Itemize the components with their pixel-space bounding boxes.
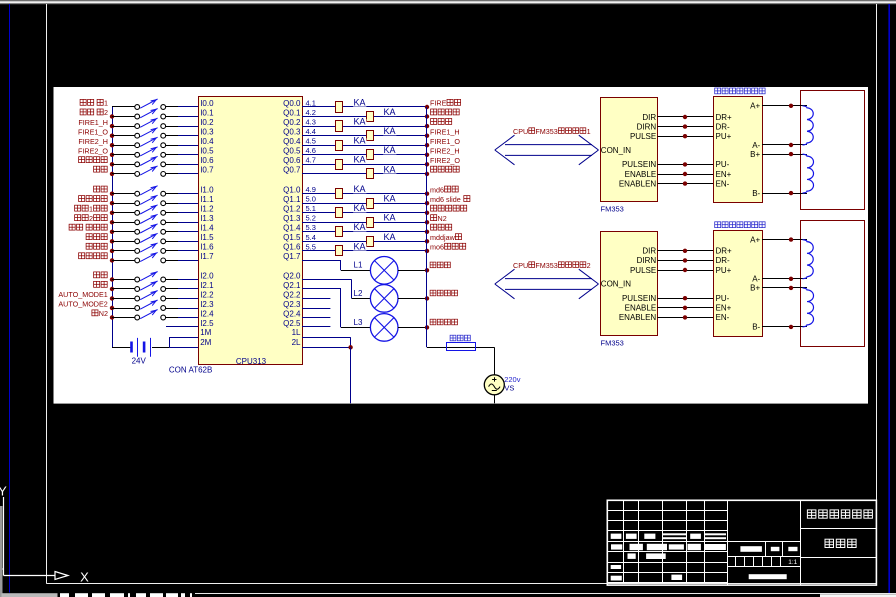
svg-text:Q1.4: Q1.4 [283, 224, 301, 233]
svg-text:DIRN: DIRN [637, 122, 657, 131]
svg-text:PULSE: PULSE [630, 266, 656, 275]
pin 1M [200, 328, 211, 337]
junction on right bus [425, 239, 429, 243]
pin PU+ [716, 132, 732, 141]
pin Q1.7 [283, 252, 301, 261]
label 自动显示 [430, 290, 457, 296]
pin PU- [716, 160, 730, 169]
svg-text:I0.5: I0.5 [200, 147, 214, 156]
junction on left bus [110, 287, 114, 291]
svg-text:md6 slide: md6 slide [430, 195, 461, 204]
svg-text:4.3: 4.3 [306, 118, 316, 127]
svg-text:1M: 1M [200, 328, 211, 337]
junction on right bus [425, 153, 429, 157]
junction [789, 104, 793, 108]
input switch I0.1 [112, 109, 199, 119]
pin A- [752, 141, 760, 150]
pin I0.0 [200, 99, 214, 108]
svg-text:2: 2 [587, 261, 591, 270]
wire ENABLE to driver [658, 174, 714, 176]
svg-text:FM353: FM353 [601, 338, 624, 347]
pin Q2.5 [283, 319, 301, 328]
label 主轴旋转 [431, 166, 460, 172]
pin I0.5 [200, 147, 214, 156]
wire stub Q2.2 [302, 317, 330, 319]
svg-text:A-: A- [752, 275, 760, 284]
wire stub Q2.5 [302, 326, 330, 328]
wire PULSEIN to driver [658, 298, 714, 300]
pin Q0.7 [283, 166, 301, 175]
pin Q1.5 [283, 233, 301, 242]
input switch I1.4 [112, 224, 199, 234]
label CPU与FM353通信总线2 [513, 261, 591, 270]
svg-text:AUTO_MODE1: AUTO_MODE1 [58, 290, 107, 299]
label 自动 [94, 272, 108, 278]
svg-text:1: 1 [587, 127, 591, 136]
left blue guide line [9, 4, 11, 593]
pin Q1.4 [283, 224, 301, 233]
wire B- to motor [762, 193, 807, 195]
svg-text:1: 1 [89, 205, 93, 214]
label 电机1使能 [75, 205, 108, 214]
svg-text:I0.0: I0.0 [200, 99, 214, 108]
svg-text:Q0.2: Q0.2 [283, 118, 301, 127]
pin I0.6 [200, 156, 214, 165]
label FIRE1_O [78, 127, 108, 136]
lamp L3 [302, 289, 427, 342]
pin ENABLEN [619, 179, 657, 188]
pin Q0.0 [283, 99, 301, 108]
pin Q2.2 [283, 290, 301, 299]
svg-text:CPU313: CPU313 [236, 357, 267, 366]
positioning module FM353 U2 [601, 232, 658, 336]
pin I1.2 [200, 205, 214, 214]
svg-text:Q2.0: Q2.0 [283, 271, 301, 280]
svg-text:Q0.3: Q0.3 [283, 128, 301, 137]
pin B- [752, 323, 760, 332]
svg-text:Q1.0: Q1.0 [283, 186, 301, 195]
svg-text:I2.4: I2.4 [200, 309, 214, 318]
pin ENABLE [625, 170, 657, 179]
pin 2M [200, 338, 211, 347]
label FIRE2_H [78, 137, 108, 146]
svg-text:I0.4: I0.4 [200, 137, 214, 146]
input switch I1.3 [112, 214, 199, 224]
junction on right bus [425, 114, 429, 118]
label 尾架使能 [431, 109, 460, 115]
svg-text:A+: A+ [750, 102, 760, 111]
pin EN+ [716, 170, 732, 179]
pin CON_IN [601, 280, 631, 289]
label FM353 [601, 205, 624, 214]
label 吹N2 [92, 309, 108, 318]
pin I2.5 [200, 319, 214, 328]
pin Q1.2 [283, 205, 301, 214]
pin DR+ [716, 247, 733, 256]
title block divider v2 [800, 500, 802, 585]
relay coil KA (Q0.1 wire 4.2) [302, 107, 427, 122]
svg-text:FIRE2_H: FIRE2_H [78, 137, 108, 146]
svg-text:2M: 2M [200, 338, 211, 347]
svg-text:KA: KA [354, 241, 366, 251]
battery 24V [130, 338, 150, 357]
svg-text:I1.2: I1.2 [200, 205, 214, 214]
svg-text:FIRE: FIRE [430, 99, 447, 108]
junction on left bus [110, 201, 114, 205]
pin I0.1 [200, 108, 214, 117]
svg-text:I1.1: I1.1 [200, 195, 214, 204]
junction [789, 325, 793, 329]
input switch I0.6 [112, 156, 199, 166]
svg-text:4.9: 4.9 [306, 185, 316, 194]
label 驱动器 驱动器（火架） [715, 222, 765, 228]
pin Q0.5 [283, 147, 301, 156]
svg-text:L1: L1 [354, 261, 363, 270]
svg-text:I0.1: I0.1 [200, 108, 214, 117]
svg-text:KA: KA [354, 222, 366, 232]
svg-text:I2.3: I2.3 [200, 300, 214, 309]
title block right dividers [801, 529, 876, 558]
svg-text:24V: 24V [132, 356, 147, 365]
svg-text:DIR: DIR [642, 247, 656, 256]
junction [683, 115, 687, 119]
label md6夹退 [430, 185, 458, 194]
svg-text:Q0.6: Q0.6 [283, 156, 301, 165]
svg-text:PULSEIN: PULSEIN [622, 294, 656, 303]
svg-text:CON_IN: CON_IN [601, 146, 631, 155]
junction on left bus [110, 162, 114, 166]
junction 1L/2L [348, 345, 352, 349]
svg-text:I1.6: I1.6 [200, 243, 214, 252]
svg-text:KA: KA [354, 155, 366, 165]
svg-text:I2.1: I2.1 [200, 281, 214, 290]
fuse 保险丝 [447, 343, 476, 351]
junction on right bus [425, 325, 429, 329]
input switch I2.1 [112, 281, 199, 291]
svg-text:VS: VS [504, 384, 514, 393]
svg-text:KA: KA [354, 97, 366, 107]
wire ENABLE to driver [658, 307, 714, 309]
svg-text:KA: KA [384, 126, 396, 136]
pin CON_IN [601, 146, 631, 155]
junction on right bus [425, 268, 429, 272]
svg-text:Q2.5: Q2.5 [283, 319, 301, 328]
pin 2L [292, 338, 301, 347]
svg-text:FM353: FM353 [535, 261, 557, 270]
junction [789, 237, 793, 241]
stepper driver 驱动器（火架） [714, 231, 763, 337]
svg-text:I1.3: I1.3 [200, 214, 214, 223]
junction on left bus [110, 258, 114, 262]
wire 2L [302, 347, 351, 349]
pin I0.7 [200, 166, 214, 175]
svg-text:5.2: 5.2 [306, 214, 316, 223]
label scale 1:1 [788, 559, 797, 566]
wire PULSE to driver [658, 270, 714, 272]
pin I2.3 [200, 300, 214, 309]
wire B+ to motor [762, 287, 807, 289]
stepper motor frame [801, 91, 865, 210]
label 夹模退 [86, 243, 107, 249]
svg-text:KA: KA [384, 107, 396, 117]
svg-text:FIRE1_H: FIRE1_H [430, 127, 460, 136]
junction on right bus [425, 124, 429, 128]
svg-text:FIRE1_H: FIRE1_H [78, 118, 108, 127]
junction on right bus [425, 211, 429, 215]
wire bus to fuse [427, 347, 494, 349]
svg-text:EN+: EN+ [716, 170, 732, 179]
label FIRE2_H [430, 146, 460, 155]
input switch I2.0 [112, 272, 199, 282]
svg-text:PU-: PU- [716, 294, 730, 303]
svg-text:KA: KA [354, 136, 366, 146]
svg-text:A-: A- [752, 141, 760, 150]
svg-text:Q0.4: Q0.4 [283, 137, 301, 146]
svg-text:5.5: 5.5 [306, 242, 316, 251]
wire B+ to motor [762, 154, 807, 156]
svg-text:I1.5: I1.5 [200, 233, 214, 242]
svg-text:Q0.5: Q0.5 [283, 147, 301, 156]
svg-text:I2.0: I2.0 [200, 271, 214, 280]
pin I0.2 [200, 118, 214, 127]
wire drop to sheet edge [350, 347, 352, 403]
svg-text:EN-: EN- [716, 313, 730, 322]
junction on left bus [110, 134, 114, 138]
relay coil KA (Q0.5 wire 4.6) [302, 145, 427, 159]
pin ENABLE [625, 304, 657, 313]
stepper driver 驱动器（仓尾） [714, 97, 763, 203]
junction [683, 258, 687, 262]
label FM353 [601, 338, 624, 347]
junction on left bus [110, 239, 114, 243]
svg-text:PU+: PU+ [716, 266, 732, 275]
svg-text:md6: md6 [430, 185, 444, 194]
junction on right bus [425, 230, 429, 234]
junction on right bus [425, 192, 429, 196]
label 手动 [94, 281, 108, 287]
positioning module FM353 U1 [601, 98, 658, 202]
pin PULSEIN [622, 294, 656, 303]
svg-text:I1.4: I1.4 [200, 224, 214, 233]
24V supply bus (left vertical) [112, 107, 114, 347]
svg-text:B+: B+ [750, 284, 760, 293]
relay coil KA (Q0.6 wire 4.7) [302, 155, 427, 170]
svg-text:ENABLEN: ENABLEN [619, 179, 657, 188]
input switch I0.0 [112, 99, 199, 109]
svg-text:B-: B- [752, 189, 760, 198]
relay coil KA (Q0.3 wire 4.4) [302, 126, 427, 140]
junction on left bus [110, 143, 114, 147]
input switch I0.7 [112, 166, 199, 176]
label 启动 [94, 166, 108, 172]
svg-text:2: 2 [104, 108, 108, 117]
svg-text:FIRE1_O: FIRE1_O [78, 127, 108, 136]
svg-text:1:1: 1:1 [788, 559, 797, 566]
pin I2.0 [200, 271, 214, 280]
label 尾架夹头松 [431, 205, 467, 211]
svg-text:CON_IN: CON_IN [601, 280, 631, 289]
svg-text:4.6: 4.6 [306, 146, 316, 155]
svg-text:ENABLEN: ENABLEN [619, 313, 657, 322]
junction [683, 268, 687, 272]
svg-text:FIRE2_H: FIRE2_H [430, 146, 460, 155]
motor winding [803, 154, 814, 193]
label 参考 点2 [80, 108, 108, 117]
svg-text:I0.7: I0.7 [200, 166, 214, 175]
svg-text:FM353: FM353 [601, 205, 624, 214]
junction on left bus [110, 315, 114, 319]
junction on left bus [110, 230, 114, 234]
pin I1.3 [200, 214, 214, 223]
input switch I1.5 [112, 233, 199, 243]
pin Q1.0 [283, 186, 301, 195]
pin I2.1 [200, 281, 214, 290]
pin Q2.3 [283, 300, 301, 309]
junction [683, 296, 687, 300]
junction on right bus [425, 105, 429, 109]
svg-text:KA: KA [384, 213, 396, 223]
pin DIRN [637, 122, 657, 131]
input switch I1.6 [112, 243, 199, 253]
svg-text:DR+: DR+ [716, 247, 733, 256]
pin I2.4 [200, 309, 214, 318]
output common bus (right vertical) [426, 107, 428, 347]
bus arrow CPU-FM353 2 [495, 269, 599, 299]
relay coil KA (Q1.3 wire 5.2) [302, 213, 427, 228]
pin Q0.6 [283, 156, 301, 165]
wire stub I2.5 [166, 326, 199, 328]
pin Q1.3 [283, 214, 301, 223]
svg-text:FIRE1_O: FIRE1_O [430, 137, 460, 146]
svg-text:I2.5: I2.5 [200, 319, 214, 328]
bus arrow CPU-FM353 1 [495, 135, 599, 165]
svg-text:Q1.5: Q1.5 [283, 233, 301, 242]
wire A- to motor [762, 278, 807, 280]
label 夹模进 [86, 234, 107, 240]
svg-text:4.4: 4.4 [306, 127, 316, 136]
wire bus to battery [112, 347, 130, 349]
stepper motor frame [801, 221, 865, 347]
pin Q0.4 [283, 137, 301, 146]
junction on left bus [110, 249, 114, 253]
svg-text:2L: 2L [292, 338, 301, 347]
svg-text:I0.3: I0.3 [200, 128, 214, 137]
label FIRE2_O [430, 156, 460, 165]
pin Q2.0 [283, 271, 301, 280]
svg-text:I0.2: I0.2 [200, 118, 214, 127]
svg-text:I0.6: I0.6 [200, 156, 214, 165]
relay coil KA (Q1.1 wire 5.0) [302, 194, 427, 209]
pin DIR [642, 113, 656, 122]
pin I1.4 [200, 224, 214, 233]
svg-text:Q1.2: Q1.2 [283, 205, 301, 214]
pin DR- [716, 256, 731, 265]
label 仓尾开关 [79, 157, 108, 163]
junction on left bus [110, 153, 114, 157]
relay coil KA (Q1.5 wire 5.4) [302, 232, 427, 247]
svg-text:PULSEIN: PULSEIN [622, 160, 656, 169]
svg-text:KA: KA [354, 117, 366, 127]
junction [683, 249, 687, 253]
window edge strip [0, 506, 3, 591]
pin 1L [292, 328, 301, 337]
paper sheet [54, 87, 869, 404]
pin ENABLEN [619, 313, 657, 322]
toolbar bottom edge strip [0, 0, 896, 1]
label 徐州工程学院 [807, 510, 872, 518]
drawing frame left border [46, 4, 48, 583]
pin I1.0 [200, 186, 214, 195]
label FIRE1_H [430, 127, 460, 136]
pin Q2.4 [283, 309, 301, 318]
svg-text:4.7: 4.7 [306, 156, 316, 165]
label 220v [504, 375, 521, 384]
junction [683, 134, 687, 138]
label CPU与FM353通信总线1 [513, 127, 591, 136]
svg-text:CPU: CPU [513, 261, 528, 270]
svg-text:Q0.7: Q0.7 [283, 166, 301, 175]
junction [683, 162, 687, 166]
wire A+ to motor [762, 105, 807, 107]
lamp L1 [302, 257, 427, 285]
svg-text:X: X [80, 570, 89, 585]
junction [683, 306, 687, 310]
svg-text:5.0: 5.0 [306, 195, 316, 204]
wire DIRN to driver [658, 126, 714, 128]
svg-text:Y: Y [0, 484, 7, 499]
junction on right bus [425, 220, 429, 224]
svg-text:N2: N2 [99, 309, 108, 318]
junction on left bus [110, 296, 114, 300]
label mddjaw夹 [430, 233, 462, 242]
svg-text:5.4: 5.4 [306, 233, 316, 242]
wire DIR to driver [658, 116, 714, 118]
svg-text:I1.7: I1.7 [200, 252, 214, 261]
label FIRE使能 [430, 99, 461, 108]
relay coil KA (Q0.0 wire 4.1) [302, 97, 427, 112]
wire fuse to source [494, 347, 496, 375]
title block cell fills [611, 533, 726, 580]
svg-text:Q1.3: Q1.3 [283, 214, 301, 223]
relay coil KA (Q0.2 wire 4.3) [302, 117, 427, 132]
pin I1.6 [200, 243, 214, 252]
svg-text:B-: B- [752, 323, 760, 332]
junction on left bus [110, 277, 114, 281]
pin A- [752, 275, 760, 284]
AC source VS 220v [484, 375, 504, 395]
UCS icon [0, 484, 89, 585]
svg-text:4.1: 4.1 [306, 98, 316, 107]
label VS [504, 384, 514, 393]
wire DIRN to driver [658, 260, 714, 262]
junction on left bus [110, 124, 114, 128]
pin Q0.3 [283, 128, 301, 137]
label 电路图 [825, 539, 856, 547]
svg-text:KA: KA [354, 203, 366, 213]
svg-text:FM353: FM353 [535, 127, 557, 136]
junction on left bus [110, 192, 114, 196]
svg-text:N2: N2 [438, 214, 447, 223]
wire B- to motor [762, 326, 807, 328]
wire PULSE to driver [658, 136, 714, 138]
svg-text:PULSE: PULSE [630, 132, 656, 141]
label 保险丝 [450, 335, 470, 341]
svg-text:1L: 1L [292, 328, 301, 337]
junction on left bus [110, 114, 114, 118]
pin A+ [750, 102, 760, 111]
svg-text:ENABLE: ENABLE [625, 170, 657, 179]
label md6 slide 进 [430, 195, 470, 204]
